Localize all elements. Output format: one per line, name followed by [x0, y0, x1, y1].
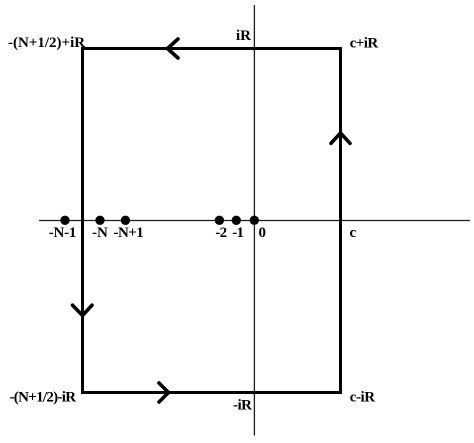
pole at -N	[95, 216, 104, 225]
svg-text:-2: -2	[215, 225, 226, 241]
imaginary axis	[253, 5, 255, 436]
arrow right on bottom edge	[159, 383, 169, 402]
svg-text:iR: iR	[236, 28, 251, 44]
svg-text:-(N+1/2)+iR: -(N+1/2)+iR	[8, 35, 85, 51]
real axis	[39, 220, 470, 222]
svg-text:c+iR: c+iR	[350, 35, 379, 51]
svg-text:-N+1: -N+1	[114, 225, 144, 241]
svg-text:-N: -N	[92, 225, 108, 241]
svg-text:c-iR: c-iR	[350, 389, 376, 405]
pole at -2	[215, 216, 224, 225]
pole at -N-1	[60, 216, 69, 225]
arrow up on right edge	[331, 133, 350, 143]
svg-text:-1: -1	[232, 225, 243, 241]
svg-text:-(N+1/2)-iR: -(N+1/2)-iR	[10, 390, 77, 406]
svg-text:-iR: -iR	[233, 398, 252, 414]
arrow left on top edge	[168, 39, 179, 58]
svg-text:0: 0	[259, 225, 267, 241]
pole at -1	[232, 216, 241, 225]
arrow down on left edge	[73, 305, 93, 315]
svg-text:-N-1: -N-1	[49, 225, 77, 241]
svg-text:c: c	[350, 225, 357, 241]
pole at -N+1	[121, 216, 130, 225]
rectangular contour	[83, 49, 341, 393]
pole at 0	[250, 216, 259, 225]
